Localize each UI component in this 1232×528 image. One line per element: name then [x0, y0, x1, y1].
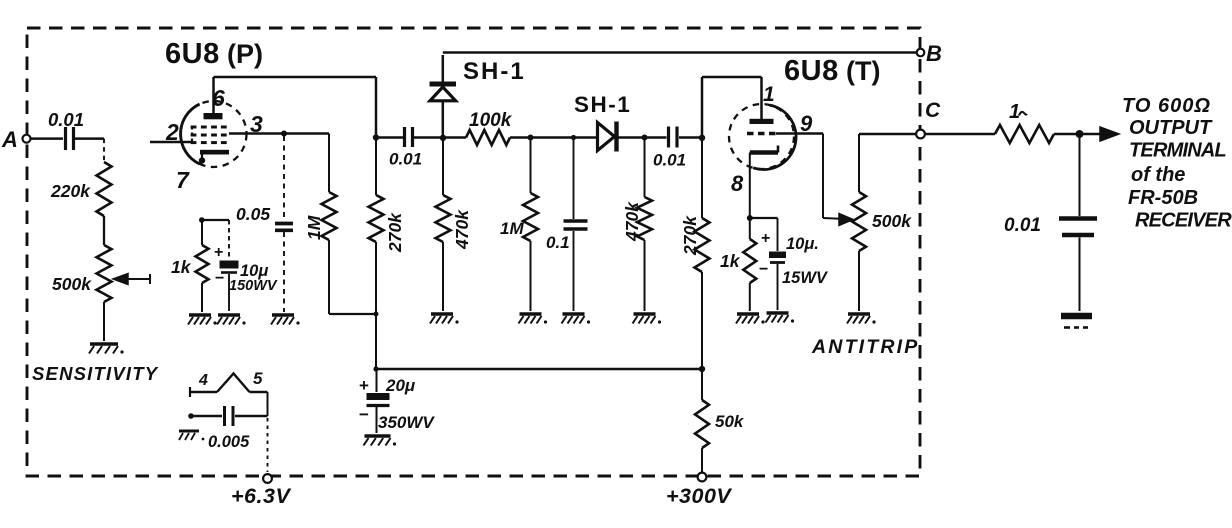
resistor R7 100k — [443, 110, 530, 145]
U2 plate bar (pin 1) — [750, 119, 774, 124]
svg-text:−: − — [359, 405, 369, 424]
wire grid to wiper — [776, 134, 840, 219]
svg-text:10μ.: 10μ. — [786, 235, 819, 253]
resistor R1 220k — [50, 162, 112, 216]
ground under R6 — [430, 314, 459, 324]
capacitor C1 0.01 input — [48, 109, 84, 150]
U1 plate bar (pin 6) — [204, 113, 223, 119]
capacitor C7 10u 15WV — [759, 218, 829, 310]
svg-text:6U8: 6U8 — [165, 38, 220, 70]
svg-text:1M: 1M — [304, 215, 324, 240]
svg-text:(T): (T) — [846, 56, 880, 86]
capacitor C6 0.01 — [645, 127, 701, 170]
svg-text:8: 8 — [731, 171, 744, 196]
terminal +6.3V — [231, 474, 291, 508]
diode D1 SH-1 vertical — [430, 84, 457, 136]
svg-text:270k: 270k — [680, 215, 700, 256]
output arrow — [1080, 127, 1120, 141]
U1 pin 2 wire — [150, 141, 192, 144]
svg-text:100k: 100k — [469, 110, 513, 131]
svg-text:0.01: 0.01 — [1004, 215, 1041, 236]
svg-text:SENSITIVITY: SENSITIVITY — [32, 363, 159, 384]
svg-text:470k: 470k — [622, 201, 642, 242]
capacitor C3 10u 150WV — [214, 220, 278, 311]
potentiometer R2 500k sensitivity — [52, 245, 112, 302]
node P junction — [373, 134, 379, 140]
svg-text:+: + — [761, 230, 770, 247]
svg-text:500k: 500k — [52, 274, 92, 294]
wiper arrow R2 — [113, 274, 150, 285]
svg-text:1M: 1M — [500, 219, 524, 238]
svg-text:4: 4 — [198, 372, 208, 389]
pin label 8 — [731, 171, 744, 196]
svg-text:7: 7 — [176, 167, 190, 193]
terminal A — [1, 127, 31, 152]
cathode node wire — [199, 217, 229, 223]
wire R1 to R2 — [103, 216, 105, 245]
wire C to R13 — [925, 133, 995, 136]
terminal C — [916, 99, 941, 138]
pin label 6 — [212, 85, 225, 111]
U2 cathode (pin 8) — [750, 146, 778, 219]
ground under R9 — [633, 314, 662, 324]
capacitor C4 0.01 coupling — [376, 127, 422, 169]
label SENSITIVITY — [32, 363, 159, 384]
ground under C5 — [562, 314, 591, 324]
svg-text:+6.3V: +6.3V — [231, 484, 291, 508]
dashed enclosure border — [27, 28, 920, 476]
svg-text:FR-50B: FR-50B — [1128, 187, 1198, 209]
wire node down to R1 — [103, 139, 105, 162]
U2 grid dashes (pin 9) — [747, 132, 776, 135]
label ANTITRIP — [811, 336, 920, 358]
wire screen node down — [283, 136, 285, 221]
svg-text:TERMINAL: TERMINAL — [1129, 140, 1227, 162]
svg-text:+: + — [359, 376, 369, 395]
wire R2 to ground — [103, 302, 105, 341]
node H junction — [699, 135, 705, 141]
svg-text:0.1: 0.1 — [546, 233, 570, 252]
wire pin5 down — [267, 392, 269, 416]
heater pins 4 and 5 — [190, 369, 268, 397]
label 6U8(P) — [165, 38, 263, 70]
capacitor C5 0.1 — [546, 139, 588, 311]
wiper arrow into R12 — [839, 214, 853, 226]
svg-text:1k: 1k — [720, 251, 741, 271]
resistor R9 470k — [622, 140, 652, 311]
svg-text:470k: 470k — [452, 209, 472, 250]
pin label 9 — [800, 111, 813, 136]
capacitor C10 0.005 — [188, 406, 267, 451]
ground under C10 — [179, 431, 204, 440]
wire C2 to ground — [283, 232, 285, 312]
capacitor C8 0.01 output — [1004, 134, 1097, 236]
capacitor C9 20u 350WV — [359, 369, 435, 433]
ground under C7 — [766, 313, 795, 323]
U1 pin 3 wire — [229, 132, 329, 135]
potentiometer R12 500k antitrip — [852, 134, 912, 311]
terminal B — [917, 41, 942, 66]
ground under C2 — [271, 315, 300, 325]
svg-text:+: + — [214, 244, 223, 261]
diode D2 SH-1 horizontal — [598, 122, 643, 152]
resistor R6 470k — [436, 140, 473, 311]
svg-text:15WV: 15WV — [782, 269, 829, 287]
label TO 600 OUTPUT TERMINAL — [1122, 95, 1232, 232]
pin label 1 — [763, 83, 775, 106]
svg-text:500k: 500k — [872, 211, 912, 231]
svg-text:TO 600Ω: TO 600Ω — [1122, 95, 1211, 117]
label SH-1 first — [463, 58, 526, 85]
wire C8 to ground — [1079, 238, 1081, 312]
svg-text:150WV: 150WV — [229, 278, 278, 294]
svg-text:20μ: 20μ — [385, 376, 416, 395]
svg-text:6: 6 — [212, 85, 225, 111]
pin label 7 — [176, 167, 190, 193]
node H2 junction — [699, 366, 705, 372]
wire E to F — [531, 136, 598, 139]
U1 grid dashes — [191, 126, 227, 145]
node G junction — [642, 135, 648, 141]
node F tap — [571, 135, 576, 140]
svg-text:1: 1 — [763, 83, 775, 106]
capacitor C2 0.05 — [236, 204, 293, 230]
svg-text:220k: 220k — [50, 181, 91, 201]
svg-text:1: 1 — [1009, 101, 1020, 123]
node screen junction — [281, 131, 287, 137]
resistor R11 1k — [720, 218, 756, 311]
wire C1 to grid node — [75, 137, 104, 140]
svg-text:6U8: 6U8 — [784, 55, 839, 87]
svg-text:3: 3 — [250, 111, 263, 137]
svg-text:SH-1: SH-1 — [463, 58, 526, 85]
svg-text:0.005: 0.005 — [208, 433, 250, 451]
node O junction — [1076, 130, 1084, 138]
resistor R4 270k plate load — [369, 140, 406, 369]
svg-text:2: 2 — [165, 119, 179, 145]
node P2 junction — [373, 366, 378, 371]
wire C4 to node D — [414, 136, 441, 139]
svg-text:RECEIVER: RECEIVER — [1135, 210, 1232, 232]
svg-text:ANTITRIP: ANTITRIP — [811, 336, 920, 358]
tube U2 6U8 triode envelope — [729, 104, 796, 169]
ground under R11 — [736, 314, 765, 324]
wire to +6.3V terminal — [267, 418, 269, 472]
svg-text:OUTPUT: OUTPUT — [1129, 117, 1213, 139]
ground under C3 — [217, 315, 246, 325]
node E junction — [528, 135, 534, 141]
ground under R12 — [847, 314, 876, 324]
wire node H to U2 plate — [702, 77, 762, 135]
node D junction — [440, 135, 446, 141]
svg-text:SH-1: SH-1 — [574, 92, 631, 117]
node K junction — [747, 215, 778, 221]
svg-text:0.01: 0.01 — [48, 109, 84, 130]
U1 cathode bar — [199, 150, 229, 164]
ground under C9 — [364, 436, 397, 446]
svg-text:350WV: 350WV — [378, 413, 435, 432]
ground under C8 — [1061, 316, 1092, 328]
svg-text:50k: 50k — [715, 412, 745, 431]
resistor R14 50k — [695, 369, 745, 472]
svg-text:5: 5 — [253, 369, 263, 388]
svg-text:270k: 270k — [385, 212, 405, 253]
wire R13 to node O — [1054, 133, 1076, 136]
svg-text:0.01: 0.01 — [389, 150, 422, 169]
svg-text:−: − — [759, 261, 768, 278]
U1 pin 6 lead — [212, 77, 215, 113]
svg-text:of the: of the — [1131, 164, 1185, 186]
ground under R2 — [89, 344, 124, 354]
resistor R10 270k — [680, 140, 710, 369]
wire U1 plate to node P — [214, 77, 377, 138]
resistor R3 1k — [171, 220, 209, 312]
wire D1 top to B line — [443, 53, 918, 83]
resistor R5 1M screen feed — [304, 134, 337, 315]
svg-text:A: A — [1, 127, 18, 152]
svg-text:(P): (P) — [227, 39, 263, 69]
B+ rail wire — [376, 368, 702, 371]
ground under R8 — [519, 314, 548, 324]
svg-text:B: B — [926, 41, 942, 66]
svg-text:0.01: 0.01 — [653, 151, 686, 170]
wire R5 bottom to R4 — [329, 312, 379, 317]
svg-text:0.05: 0.05 — [236, 204, 270, 224]
resistor R8 1M — [500, 140, 538, 311]
ground under R3 — [188, 315, 217, 325]
label 6U8(T) — [784, 55, 880, 87]
resistor R13 1k output — [995, 101, 1054, 143]
svg-text:−: − — [215, 270, 224, 287]
pin label 2 — [165, 119, 179, 145]
svg-text:C: C — [925, 99, 941, 122]
label SH-1 second — [574, 92, 631, 117]
wire A to C1 — [31, 137, 64, 140]
pin label 3 — [250, 111, 263, 137]
tube U1 6U8 pentode envelope — [181, 101, 247, 167]
svg-text:+300V: +300V — [666, 484, 732, 508]
svg-text:1k: 1k — [171, 257, 192, 277]
wire R12 top to C — [859, 133, 916, 136]
terminal +300V — [666, 473, 732, 508]
